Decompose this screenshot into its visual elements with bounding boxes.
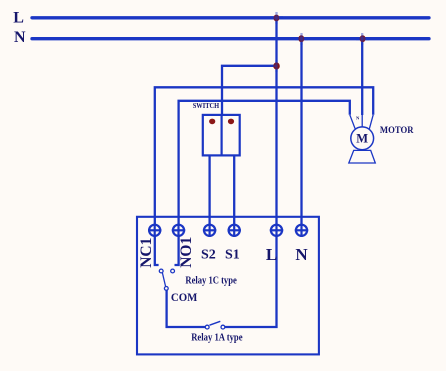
svg-text:Relay 1C type: Relay 1C type	[185, 276, 237, 287]
svg-text:S2: S2	[201, 247, 216, 262]
svg-text:L: L	[13, 10, 24, 27]
junction dot on N bus at relay feed	[298, 35, 304, 42]
svg-text:N: N	[14, 29, 26, 46]
motor M1 circle	[351, 127, 374, 150]
terminal NC1	[148, 224, 161, 237]
switch button dot left	[209, 119, 215, 125]
svg-text:N: N	[295, 245, 308, 264]
terminal S1	[228, 224, 241, 237]
svg-text:Relay 1A type: Relay 1A type	[191, 333, 243, 344]
wire switch to S2 terminal	[208, 155, 210, 230]
wire L bus	[32, 16, 429, 19]
wire switch to S1 terminal	[233, 155, 235, 230]
contact NC1	[159, 269, 163, 273]
wire COM to relay 1A	[167, 290, 206, 327]
contact 1A left	[205, 325, 209, 329]
wire branch to switch	[222, 66, 277, 115]
junction dot on L bus	[273, 15, 279, 22]
svg-text:SWITCH: SWITCH	[193, 101, 220, 110]
svg-text:S1: S1	[225, 247, 240, 262]
wire N bus	[32, 37, 429, 40]
switch button dot right	[228, 119, 234, 125]
contact 1A right	[221, 325, 225, 329]
motor collar middle lead	[361, 115, 363, 128]
junction dot on N bus at motor feed	[360, 35, 366, 42]
wire 1A to L terminal	[225, 236, 277, 327]
motor collar left lead	[350, 115, 356, 129]
wire NC1 stub to contact	[155, 236, 159, 265]
relay module box	[137, 217, 319, 355]
relay 1A lever	[210, 321, 221, 325]
wire L bus to relay L terminal	[275, 18, 277, 231]
switch SW box	[203, 115, 240, 155]
svg-text:MOTOR: MOTOR	[380, 126, 414, 136]
wire N bus to relay N terminal	[300, 39, 302, 231]
svg-text:COM: COM	[171, 292, 198, 304]
wire NO1 terminal to motor (left collar lead)	[179, 101, 350, 231]
contact COM	[164, 287, 168, 291]
terminal N	[295, 224, 308, 237]
svg-text:NC1: NC1	[138, 238, 155, 268]
svg-text:M: M	[356, 132, 368, 146]
wire overlays across junction dots	[270, 12, 369, 72]
motor base trapezoid	[349, 150, 376, 163]
switch divider	[221, 115, 223, 155]
relay 1C lever	[162, 273, 165, 287]
terminal S2	[203, 224, 216, 237]
junction dot at switch branch	[273, 62, 280, 69]
terminal NO1	[172, 224, 185, 237]
svg-text:L: L	[266, 245, 277, 264]
terminal L	[270, 224, 283, 237]
wire NC1 terminal to motor (right collar lead)	[155, 87, 373, 230]
motor collar right lead	[369, 115, 373, 129]
contact NO1	[171, 269, 175, 273]
wire N bus to motor	[361, 39, 363, 115]
svg-text:NO1: NO1	[178, 237, 195, 268]
wire NO1 stub to contact	[175, 236, 179, 265]
